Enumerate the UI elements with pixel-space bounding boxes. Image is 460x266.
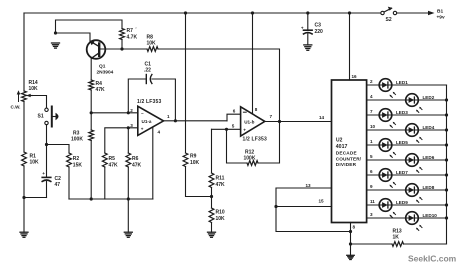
node pin5 R12 junction [225, 128, 228, 131]
svg-text:S2: S2 [386, 17, 392, 23]
svg-text:15: 15 [319, 199, 325, 204]
node pin13 pin15 junction [274, 205, 277, 208]
wire bottom rail left [351, 243, 393, 245]
svg-text:47K: 47K [216, 182, 226, 188]
node LED9 row junction [445, 203, 448, 206]
svg-text:47: 47 [55, 182, 61, 188]
label pin 5 [232, 124, 235, 129]
label S1 [38, 114, 44, 120]
wire left rail middle [23, 102, 25, 153]
svg-text:R11: R11 [216, 175, 225, 181]
svg-text:4017: 4017 [336, 144, 348, 150]
wire pins 13 15 to ground [276, 207, 351, 232]
wire collector to R4 [90, 58, 92, 80]
node U1-a output C1 junction [174, 119, 177, 122]
wire left rail upper [23, 13, 25, 91]
label R5 [109, 156, 119, 168]
LED3 [379, 109, 408, 128]
svg-text:2: 2 [370, 79, 373, 84]
node base R7 R8 junction [120, 47, 123, 50]
wire emitter to ground node [56, 33, 91, 43]
LED4 [406, 124, 435, 143]
resistor R4 [89, 80, 94, 90]
wire LED5 row [367, 144, 447, 146]
wire C3 bottom lead [307, 34, 309, 45]
resistor R3 [89, 130, 94, 141]
node R3 bottom junction [90, 197, 93, 200]
svg-text:1K: 1K [393, 234, 400, 240]
ground R10 [208, 232, 216, 237]
wire base lead [100, 48, 122, 50]
label C3 [315, 23, 324, 36]
label C.W. [11, 105, 21, 110]
svg-text:LED1: LED1 [396, 80, 408, 85]
svg-text:9: 9 [370, 184, 373, 189]
label pin 2 [130, 108, 133, 113]
label R1 [30, 153, 40, 165]
LED9 [379, 199, 408, 218]
svg-text:5: 5 [370, 154, 373, 159]
svg-text:47K: 47K [96, 87, 106, 93]
svg-text:+: + [243, 128, 246, 133]
resistor R1 [22, 152, 27, 166]
ground C3 [304, 45, 312, 50]
node top rail to U2 pin 16 [348, 11, 351, 14]
svg-text:7: 7 [370, 109, 373, 114]
ground analog bus [124, 199, 132, 237]
label R3 [71, 130, 83, 142]
wire C1 feedback right [152, 79, 176, 121]
wire R11 top [211, 129, 213, 173]
wire C3 top lead [307, 13, 309, 30]
wire LED3 row [367, 114, 447, 116]
svg-text:−: − [141, 111, 144, 116]
wire R7 bottom to base node [121, 40, 123, 50]
svg-text:LED3: LED3 [396, 110, 408, 115]
wire LED2 row [367, 99, 447, 101]
svg-text:LED7: LED7 [396, 170, 408, 175]
wire R12 loop left [227, 129, 248, 163]
node top rail to C3 [306, 11, 309, 14]
pot CW direction arrow [17, 90, 21, 101]
label R2 [73, 156, 83, 168]
svg-text:100K: 100K [244, 155, 256, 161]
label R4 [96, 81, 106, 93]
node LED5 row junction [445, 143, 448, 146]
wire R6 drop [127, 128, 129, 153]
wire R9 bottom [186, 167, 212, 197]
node R6 ground junction [127, 197, 130, 200]
node pin2 C1 junction [127, 111, 130, 114]
LED10 [406, 212, 438, 231]
LED8 [406, 184, 435, 203]
wire pin 16 supply [349, 13, 351, 80]
svg-text:10K: 10K [147, 40, 157, 46]
wire pin 4 to ground rail [152, 127, 154, 199]
wire LED6 row [367, 159, 447, 161]
label U1-a 1/2 LF353 [137, 99, 161, 105]
wire C2 top lead [46, 145, 48, 178]
label pin 16 [352, 74, 358, 79]
resistor R13 [392, 242, 404, 247]
wire pin 3 input [105, 128, 138, 153]
node U1-b output junction [278, 120, 281, 123]
IC U2 4017 box [332, 80, 367, 223]
svg-text:.22: .22 [144, 67, 151, 73]
svg-text:2: 2 [130, 108, 133, 113]
wire R5 bottom [104, 167, 106, 199]
svg-text:11: 11 [370, 199, 375, 204]
wire base node to R8 [122, 48, 147, 50]
svg-text:5: 5 [232, 124, 235, 129]
label pin 4 [158, 130, 161, 135]
switch S2 [381, 7, 397, 23]
svg-text:+: + [42, 171, 45, 176]
svg-text:DECADE: DECADE [336, 151, 357, 156]
svg-text:+9v: +9v [437, 14, 445, 20]
label U2 text block [336, 137, 362, 167]
svg-text:1: 1 [167, 114, 170, 119]
node R4 R3 pin2 junction [90, 111, 93, 114]
resistor R5 [102, 153, 107, 167]
label pin 13 [306, 183, 312, 188]
svg-text:16: 16 [352, 74, 358, 79]
label Q1 [97, 63, 114, 75]
svg-text:LED2: LED2 [423, 95, 435, 100]
svg-text:LED10: LED10 [423, 213, 438, 218]
svg-text:100K: 100K [71, 136, 83, 142]
wire R3 leads [90, 113, 92, 199]
pushbutton S1 [45, 107, 59, 127]
svg-text:47K: 47K [109, 162, 119, 168]
svg-text:SeekIC.com: SeekIC.com [408, 254, 457, 264]
svg-text:S1: S1 [38, 114, 44, 120]
ground left rail [20, 232, 28, 237]
node LED4 row junction [445, 128, 448, 131]
wire C1 feedback left [128, 79, 146, 113]
node LED7 row junction [445, 173, 448, 176]
svg-text:6: 6 [233, 108, 236, 113]
node pin 8 junction [349, 230, 352, 233]
wire pin 13 [276, 188, 332, 207]
transistor Q1 [87, 40, 106, 59]
node LED2 row junction [445, 98, 448, 101]
svg-text:COUNTER/: COUNTER/ [336, 156, 362, 161]
potentiometer R14 [22, 91, 27, 102]
resistor R2 [67, 153, 72, 167]
label R13 [393, 228, 402, 240]
svg-text:LED6: LED6 [423, 155, 435, 160]
wire R1 to C2 bottom [24, 197, 47, 199]
battery B1 +9V terminal [428, 8, 445, 20]
svg-text:1/2 LF353: 1/2 LF353 [243, 136, 267, 142]
wire R10 leads [211, 197, 213, 233]
svg-text:R2: R2 [73, 156, 80, 162]
resistor R6 [126, 153, 131, 167]
node LED3 row junction [445, 113, 448, 116]
wire R6 bottom [127, 167, 129, 199]
wire LED7 row [367, 174, 447, 176]
node pin3 R6 junction [127, 126, 130, 129]
wire R9 column [185, 13, 187, 153]
wire LED1 row [367, 84, 447, 86]
svg-text:2N3904: 2N3904 [97, 69, 114, 75]
watermark SeekIC.com [408, 254, 457, 264]
label pin 1 [167, 114, 170, 119]
wire battery feed [397, 12, 430, 14]
label R11 [216, 175, 226, 188]
LED5 [379, 139, 408, 158]
svg-text:6: 6 [370, 169, 373, 174]
wire R4 to pin2 node [90, 90, 92, 113]
resistor R11 [209, 173, 214, 188]
wire node to R2 top [47, 145, 70, 154]
node ground bottom junction [349, 242, 352, 245]
wire left rail lower [23, 166, 25, 232]
wire LED8 row [367, 189, 447, 191]
svg-text:10K: 10K [216, 216, 226, 222]
svg-text:R10: R10 [216, 209, 225, 215]
capacitor C1 [146, 75, 152, 84]
node R1 C2 junction [22, 196, 25, 199]
label pin numbers right [370, 79, 376, 217]
wire inner top rail [56, 20, 123, 33]
op-amp U1-a [138, 106, 164, 135]
wire LED9 row [367, 204, 447, 206]
svg-text:4: 4 [158, 130, 161, 135]
svg-text:Q1: Q1 [99, 63, 106, 69]
label pin 6 [233, 108, 236, 113]
svg-text:U1-a: U1-a [142, 119, 152, 124]
label C2 [55, 176, 62, 188]
wire R11 bottom [211, 188, 213, 197]
label C1 [144, 61, 151, 73]
wire bottom rail right [404, 243, 447, 245]
svg-text:10K: 10K [190, 160, 200, 166]
resistor R9 [183, 153, 188, 167]
svg-text:47K: 47K [132, 162, 142, 168]
svg-text:15K: 15K [73, 162, 83, 168]
wire pin 2 input [91, 112, 138, 114]
svg-text:U2: U2 [336, 137, 343, 143]
node LED6 row junction [445, 158, 448, 161]
capacitor C3 [301, 25, 312, 34]
wire LED cathode rail [446, 85, 448, 244]
label pin 14 [319, 115, 325, 120]
op-amp U1-b [241, 107, 265, 136]
resistor R7 [120, 29, 125, 40]
wire LED10 row [367, 217, 447, 219]
wire S1 to C2 node [46, 125, 48, 145]
svg-text:B1: B1 [437, 8, 443, 14]
wire R12 loop right [258, 122, 280, 164]
svg-text:LED8: LED8 [423, 185, 435, 190]
label R14 [29, 80, 39, 92]
wire LED4 row [367, 129, 447, 131]
wire pin 6 jog [227, 114, 241, 121]
svg-text:1: 1 [370, 139, 373, 144]
svg-text:′: ′ [136, 26, 137, 31]
wire pin 8 supply [252, 13, 254, 114]
svg-text:+: + [141, 127, 144, 132]
svg-text:R7: R7 [127, 28, 134, 34]
label R6 [132, 156, 142, 168]
svg-text:4.7K: 4.7K [127, 34, 138, 40]
LED6 [406, 154, 435, 173]
wire C2 bottom lead [46, 181, 48, 197]
svg-text:10K: 10K [29, 86, 39, 92]
wire top +9V rail [24, 12, 381, 14]
node R9 R11 R10 junction [210, 195, 213, 198]
label R9 [190, 154, 200, 166]
svg-text:8: 8 [353, 225, 356, 230]
ground U2 [347, 244, 355, 260]
wire pin 8 ground stub [350, 223, 352, 245]
svg-text:R6: R6 [132, 156, 139, 162]
svg-text:7: 7 [270, 114, 273, 119]
svg-text:C.W.: C.W. [11, 105, 21, 110]
label R10 [216, 209, 226, 222]
node S1 C2 R2 junction [45, 143, 48, 146]
svg-text:1/2 LF353: 1/2 LF353 [137, 99, 161, 105]
svg-text:R1: R1 [30, 153, 37, 159]
LED1 [379, 79, 408, 98]
svg-text:R5: R5 [109, 156, 116, 162]
node emitter ground junction [54, 31, 57, 34]
capacitor C2 [42, 171, 51, 181]
svg-text:C3: C3 [315, 23, 322, 29]
wire analog ground bus [69, 198, 153, 200]
svg-text:8: 8 [255, 107, 258, 112]
label pin 3 [130, 123, 133, 128]
svg-text:DIVIDER: DIVIDER [336, 162, 357, 167]
svg-text:3: 3 [370, 212, 373, 217]
svg-text:10K: 10K [30, 160, 40, 166]
LED2 [406, 94, 435, 113]
LED7 [379, 169, 408, 188]
label pin 7 [270, 114, 273, 119]
svg-text:220: 220 [315, 29, 324, 35]
svg-text:R9: R9 [190, 154, 197, 160]
label R7 [127, 26, 138, 40]
resistor R8 [147, 47, 158, 52]
svg-text:10: 10 [370, 124, 376, 129]
wire pin 5 input [212, 128, 241, 130]
ground emitter [52, 43, 60, 48]
svg-text:4: 4 [370, 94, 373, 99]
node top rail to R9 column [184, 11, 187, 14]
label R12 [244, 150, 256, 162]
svg-text:14: 14 [319, 115, 325, 120]
node LED10 row junction [445, 216, 448, 219]
wire R2 bottom [68, 167, 70, 199]
svg-text:LED4: LED4 [423, 125, 435, 130]
wire R14 wiper [26, 94, 46, 108]
svg-text:+: + [301, 25, 304, 30]
label R8 [147, 34, 157, 46]
wire pin 15 [276, 206, 332, 208]
svg-text:LED9: LED9 [396, 200, 408, 205]
label U1-b 1/2 LF353 [243, 136, 267, 142]
svg-text:LED5: LED5 [396, 140, 408, 145]
resistor R10 [209, 208, 214, 223]
node LED8 row junction [445, 188, 448, 191]
svg-text:U1-b: U1-b [244, 119, 254, 124]
svg-text:13: 13 [306, 183, 312, 188]
wire U1-a output [164, 120, 228, 122]
node top rail to U1 pin 8 [251, 11, 254, 14]
wire R8 to U1b output column [158, 49, 280, 122]
label pin 8 [255, 107, 258, 112]
resistor R12 [247, 161, 258, 166]
label pin 15 [319, 199, 325, 204]
label U2 pin 8 [353, 225, 356, 230]
wire U1-b output [265, 121, 332, 123]
